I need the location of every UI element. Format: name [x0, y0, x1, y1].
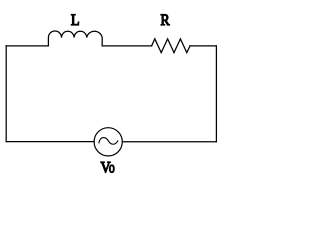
sine symbol inside source: [99, 138, 118, 145]
svg-text:o: o: [109, 159, 115, 176]
wire: top-left segment: [6, 45, 48, 47]
wire: right vertical: [215, 46, 217, 142]
wire: top-middle segment (between L and R): [102, 45, 151, 47]
resistor R: [152, 39, 190, 53]
inductor L: [48, 31, 102, 46]
source Vo circle: [94, 128, 122, 156]
svg-text:R: R: [161, 12, 170, 29]
wire: bottom-left segment: [6, 141, 94, 143]
svg-text:L: L: [71, 12, 80, 29]
wire: left vertical: [5, 46, 7, 142]
wire: top-right segment: [190, 45, 216, 47]
wire: bottom-right segment: [122, 141, 216, 143]
